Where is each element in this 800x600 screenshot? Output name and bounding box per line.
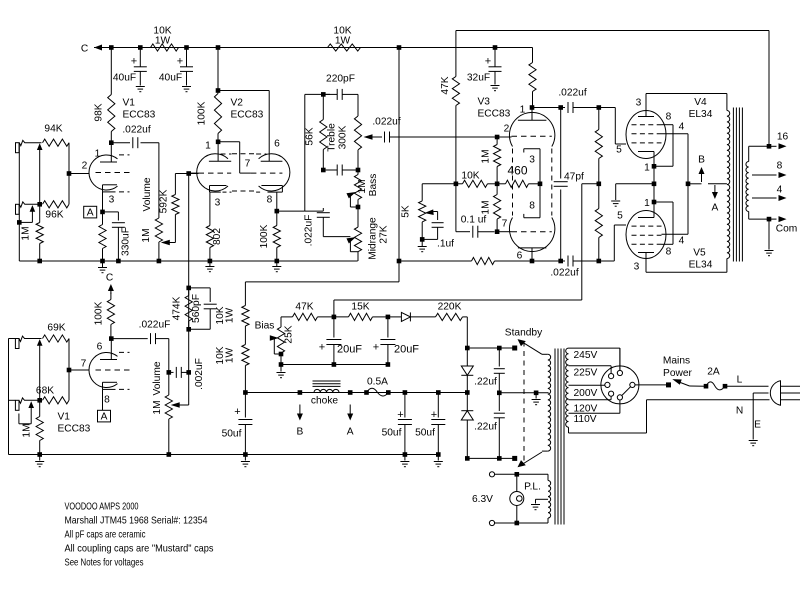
svg-text:ECC83: ECC83 [231, 110, 264, 121]
svg-text:8: 8 [267, 195, 273, 206]
wire NFB to tail [455, 106, 457, 184]
svg-text:50uf: 50uf [222, 429, 242, 440]
svg-text:5: 5 [616, 145, 622, 156]
wire V2b out to stack [277, 210, 305, 212]
output transformer core [733, 108, 742, 262]
svg-text:A: A [87, 208, 94, 219]
junction jack bus [17, 220, 22, 225]
svg-text:592K: 592K [159, 189, 170, 213]
svg-text:1: 1 [520, 105, 526, 116]
svg-text:220pF: 220pF [326, 74, 355, 85]
ground 32uF [491, 86, 500, 91]
resistor V3 upper plate load [529, 63, 536, 92]
node B arrow [688, 155, 705, 184]
selector pin 110 [617, 395, 622, 400]
svg-text:1W: 1W [225, 307, 236, 323]
junction vol2 gnd [167, 452, 172, 457]
capacitor 0.1uf NFB [456, 215, 495, 238]
svg-text:+: + [373, 342, 379, 354]
wire HT center tap [547, 392, 550, 394]
svg-text:.022uf: .022uf [122, 125, 150, 136]
svg-text:4: 4 [777, 185, 783, 196]
wire bass to mid [357, 207, 359, 227]
wire V2 direct couple [218, 142, 251, 173]
svg-text:110V: 110V [574, 414, 597, 425]
tap 120V [569, 396, 612, 414]
junction V2a plate node [216, 140, 221, 145]
svg-text:8: 8 [666, 112, 672, 123]
capacitor 47pf [554, 108, 584, 262]
svg-text:20uF: 20uF [394, 344, 419, 356]
label V4 EL34 [689, 97, 713, 120]
capacitor .22uf #1 [474, 348, 505, 393]
label V3 ECC83 [478, 97, 511, 120]
mains plug [770, 381, 800, 405]
potentiometer Volume 1M top [141, 177, 175, 261]
mains transformer core [555, 349, 564, 525]
label Standby [505, 328, 543, 339]
mains primary winding [566, 348, 569, 427]
svg-text:Mains: Mains [663, 356, 690, 367]
junction Bplus rect [465, 390, 470, 395]
svg-text:Power: Power [663, 368, 692, 379]
switch standby link [523, 342, 525, 465]
wire jack bus to rail [18, 222, 20, 261]
junction rect top [465, 346, 470, 351]
svg-text:Treble: Treble [327, 123, 338, 152]
ground presence [418, 239, 427, 251]
svg-text:6: 6 [517, 251, 523, 262]
tap 225V [569, 366, 612, 379]
tube V2 envelope [197, 154, 290, 191]
tap 200V [569, 385, 605, 399]
svg-text:.1uf: .1uf [437, 239, 454, 250]
svg-text:245V: 245V [574, 350, 598, 361]
svg-text:+: + [397, 409, 403, 421]
junction 002 right [186, 370, 191, 375]
svg-text:2: 2 [82, 161, 88, 172]
junction treble bottom [356, 168, 361, 173]
ground rail left [35, 455, 44, 467]
wire V3 lower plate feed [399, 260, 472, 262]
junction 474K bottom [186, 327, 191, 332]
capacitor 330uF [112, 212, 132, 261]
svg-text:100K: 100K [94, 301, 105, 325]
label V5 EL34 [689, 248, 713, 271]
wire V4 plate [646, 94, 727, 117]
svg-text:50uf: 50uf [415, 428, 435, 439]
resistor 1M PI upper [481, 137, 501, 184]
wire V5 cathode [653, 202, 655, 218]
junction fuse2 right [723, 384, 728, 389]
resistor 1M PI lower [481, 184, 501, 232]
wire V5 plate [646, 253, 727, 273]
junction cathode mid [652, 182, 657, 187]
junction presence gnd [420, 237, 425, 242]
resistor 100K V1b load [94, 300, 115, 339]
capacitor .022uf to V5 [532, 256, 599, 279]
svg-text:.022uf: .022uf [558, 88, 586, 99]
wire V2a plate [217, 142, 219, 161]
switch contact arrow J2 [19, 205, 35, 222]
triode V3a grid [504, 124, 552, 137]
svg-text:V5: V5 [693, 248, 706, 259]
svg-text:0.5A: 0.5A [367, 377, 388, 388]
output transformer secondary [746, 146, 749, 219]
triode V2a plate [205, 141, 231, 162]
triode V2b grid [240, 172, 283, 174]
svg-text:A: A [712, 203, 719, 214]
tap 110V [569, 400, 620, 425]
wire L [725, 375, 769, 387]
resistor 592K [159, 174, 180, 215]
svg-text:4: 4 [679, 122, 685, 133]
triode V2a cathode [210, 186, 232, 209]
junction 1M2 top [37, 398, 42, 403]
wire NFB to grid cap [455, 184, 457, 232]
wire V1b plate [110, 339, 112, 360]
svg-text:All coupling caps are "Mustard: All coupling caps are "Mustard" caps [65, 544, 214, 555]
junction fuse left [364, 390, 369, 395]
junction V5 cathode [652, 200, 657, 205]
junction 20uF1 gnd [332, 362, 337, 367]
svg-text:C: C [81, 44, 88, 55]
resistor 56K slope [305, 94, 327, 170]
wire primary bottom [569, 400, 647, 433]
svg-text:96K: 96K [45, 210, 63, 221]
svg-text:3: 3 [109, 195, 115, 206]
junction 47pf bottom [558, 259, 563, 264]
junction bass cap left [321, 168, 326, 173]
resistor V5 grid leak [595, 184, 602, 261]
input jack J3 tip [15, 339, 19, 349]
fuse 2A [706, 367, 725, 390]
wire cathode gnd link [616, 184, 654, 200]
junction rect bottom [465, 456, 470, 461]
wire cathode to V5 [653, 184, 655, 202]
wire V2a cathode [209, 192, 211, 225]
junction choke A [348, 390, 353, 395]
terminal heater top [489, 472, 494, 477]
svg-text:10K: 10K [461, 171, 479, 182]
svg-text:Volume: Volume [142, 177, 153, 211]
junction bias node [332, 315, 337, 320]
svg-text:.022uf: .022uf [372, 117, 400, 128]
wire V5 grid [599, 211, 626, 262]
junction 50uf2 top [403, 390, 408, 395]
switch mains power [663, 356, 693, 388]
wire V3a grid [495, 136, 512, 138]
svg-text:1M: 1M [21, 226, 32, 240]
ground 802 [205, 261, 214, 272]
terminal heater bottom [489, 520, 494, 525]
junction 98K top [109, 45, 114, 50]
node B feed [297, 405, 304, 438]
selector wiper [622, 387, 631, 396]
junction bass bottom [356, 205, 361, 210]
svg-text:6: 6 [97, 342, 103, 353]
ground V1a cathode [98, 261, 107, 273]
junction 802 gnd [208, 259, 213, 264]
potentiometer Midrange 27K [346, 217, 389, 260]
svg-text:V3: V3 [478, 97, 491, 108]
capacitor 20uF #2 [373, 317, 420, 365]
wire volume top feed [158, 143, 160, 218]
junction V1b plate [109, 336, 114, 341]
svg-text:802: 802 [212, 228, 223, 245]
svg-text:B: B [698, 155, 705, 166]
svg-text:V1: V1 [123, 98, 136, 109]
wire rect top rail [467, 347, 514, 349]
notes text [65, 502, 214, 569]
junction 40uF2 [184, 45, 189, 50]
svg-text:A: A [347, 427, 354, 438]
wire jack bus 2 [9, 339, 16, 455]
wire treble top [357, 94, 359, 116]
capacitor .022uf PI input [372, 117, 494, 143]
wire tail row [422, 183, 462, 185]
tap 4 [752, 185, 787, 202]
resistor 96K [43, 201, 70, 221]
capacitor .002uF [169, 358, 205, 390]
ground E [749, 441, 758, 446]
resistor 100K V2b cathode [259, 211, 280, 261]
input jack J1 tip [16, 143, 20, 153]
capacitor 40uF #2 [159, 48, 193, 86]
svg-text:5: 5 [617, 211, 623, 222]
junction rail left [243, 390, 248, 395]
wire E [753, 393, 768, 440]
junction fuse right [386, 390, 391, 395]
svg-text:1: 1 [95, 149, 101, 160]
svg-text:.022uF: .022uF [304, 215, 315, 247]
junction 1M upper top [495, 135, 500, 140]
wire V1b grid [69, 359, 89, 371]
resistor 10K 1W #1 [151, 26, 179, 52]
cathode bracket V3 [524, 149, 540, 218]
svg-text:VOODOO AMPS 2000: VOODOO AMPS 2000 [65, 502, 139, 513]
resistor 10K 1W drop1 [215, 282, 249, 326]
junction PL top [515, 472, 520, 477]
triode V2b plate [256, 154, 282, 161]
svg-text:All pF caps are ceramic: All pF caps are ceramic [65, 530, 146, 541]
tube V3 envelope bottom [509, 218, 554, 252]
junction Com tap [767, 217, 772, 222]
junction PL bottom [515, 521, 520, 526]
wire heater CT [536, 499, 549, 503]
wire channel2 riser [188, 174, 190, 288]
wire jack3 tip spring [19, 336, 42, 341]
ground CT [532, 393, 541, 405]
resistor 10K tail [461, 171, 487, 188]
svg-text:1: 1 [205, 141, 211, 152]
junction 50uf1 gnd [243, 452, 248, 457]
diode rect D2 [461, 393, 473, 459]
junction mix node [186, 171, 191, 176]
resistor 10K 1W #2 [328, 26, 361, 52]
wire bias feed riser [334, 184, 599, 300]
wire V4 screen [662, 134, 689, 234]
svg-text:0.1 uf: 0.1 uf [461, 215, 487, 226]
ground 40uF2 [182, 87, 191, 92]
svg-text:Volume: Volume [152, 361, 163, 395]
potentiometer Treble 300K [327, 116, 383, 170]
wire jack1 tip spring [19, 140, 41, 145]
wire bias top [281, 317, 293, 327]
wire bright riser [188, 288, 190, 405]
svg-text:See Notes for voltages: See Notes for voltages [65, 558, 144, 569]
junction 474K top [186, 286, 191, 291]
wire V5 screen [662, 233, 689, 235]
svg-text:1M: 1M [141, 228, 152, 242]
wire bias gnd row [281, 364, 388, 366]
junction 1M top [37, 202, 42, 207]
junction bias wiper [279, 352, 284, 357]
triode V2b cathode [256, 186, 282, 206]
resistor V3 lower plate load [472, 257, 495, 264]
triode V3b grid dashes [512, 231, 552, 233]
junction CT gnd [534, 391, 539, 396]
wire CT line [499, 392, 548, 394]
mains HT winding [542, 354, 551, 451]
ground bias [277, 365, 286, 378]
wire preamp ground rail [19, 260, 357, 262]
capacitor .1uf presence [422, 223, 454, 250]
voltage selector body [601, 366, 639, 404]
ground power cathodes [611, 201, 620, 206]
wire heater top [494, 473, 548, 475]
junction tail cathode [538, 182, 543, 187]
wire to V3 lower plate [495, 260, 533, 262]
wire V2b cathode out [276, 192, 278, 211]
svg-text:474K: 474K [172, 296, 183, 320]
capacitor 50uf #1 [222, 393, 253, 455]
svg-text:220K: 220K [438, 302, 462, 313]
wire pin6 feed [218, 91, 280, 162]
junction bias gnd [279, 362, 284, 367]
svg-text:.22uf: .22uf [474, 422, 497, 433]
junction cap1 top [497, 346, 502, 351]
wire 69K to 68K [68, 339, 70, 401]
capacitor .022uf V1a out [111, 125, 159, 149]
capacitor .22uf #2 [474, 393, 505, 459]
node A feed [347, 405, 354, 438]
svg-text:Bias: Bias [255, 321, 275, 332]
wire rect bottom rail [467, 457, 514, 459]
pentode V4 EL34 [626, 98, 685, 174]
wire heater bottom [494, 522, 548, 524]
wire stack top [305, 93, 330, 95]
capacitor .022uF mid [304, 208, 330, 246]
selector pin 200 [605, 382, 610, 387]
svg-text:1W: 1W [225, 347, 236, 363]
wire V3b grid [497, 219, 511, 232]
selector pin 225 [609, 374, 614, 379]
svg-text:E: E [754, 420, 761, 431]
svg-text:47pf: 47pf [564, 172, 584, 183]
svg-text:7: 7 [245, 159, 251, 170]
svg-text:5K: 5K [401, 205, 412, 218]
svg-text:330uF: 330uF [121, 227, 132, 256]
svg-text:7: 7 [81, 359, 87, 370]
junction 50uf3 gnd [436, 452, 441, 457]
wire V1a plate [110, 143, 112, 162]
svg-text:+: + [177, 56, 183, 68]
node A box top [84, 206, 97, 218]
junction vol2 junction [167, 370, 172, 375]
svg-text:EL34: EL34 [689, 109, 713, 120]
resistor 802 cathode [206, 226, 223, 262]
junction bias mid [597, 182, 602, 187]
triode V3a plate [518, 105, 547, 121]
tube V3 envelope top [509, 112, 554, 215]
junction V3 upper plate [530, 105, 535, 110]
junction V2 feed [216, 45, 221, 50]
diode bias [388, 312, 436, 321]
capacitor bass .022 [326, 165, 358, 176]
svg-text:225V: 225V [574, 368, 598, 379]
junction 1M lower bottom [495, 229, 500, 234]
junction 32uF [493, 45, 498, 50]
inductor choke [311, 381, 341, 407]
label V1 ECC83 [123, 98, 156, 121]
svg-text:2A: 2A [707, 367, 720, 378]
svg-text:6: 6 [274, 139, 280, 150]
diode rect D1 [461, 348, 473, 393]
switch contact arrow J1 [37, 143, 43, 204]
svg-text:+: + [234, 406, 240, 418]
input jack J2 tip [16, 204, 20, 214]
tap 16 [749, 132, 789, 150]
wire 40uF1 drop [139, 48, 141, 67]
junction V3b plate [530, 259, 535, 264]
heater winding [548, 474, 551, 523]
svg-text:1M: 1M [481, 149, 492, 163]
label 460 [507, 164, 527, 178]
svg-text:ECC83: ECC83 [123, 110, 156, 121]
triode V1b [89, 342, 130, 406]
triode V1a [89, 149, 130, 206]
resistor 100K V2a load [197, 48, 222, 142]
tap 245V [569, 348, 620, 370]
svg-text:16: 16 [777, 132, 789, 143]
resistor 470R tail [497, 180, 540, 187]
switch contact arrow J4 [19, 401, 34, 424]
svg-text:3: 3 [636, 98, 642, 109]
wire V4 cathode [653, 152, 655, 184]
svg-text:.002uF: .002uF [194, 358, 205, 390]
capacitor 20uF #1 [319, 317, 363, 365]
resistor 15K bias [318, 302, 388, 321]
svg-text:2: 2 [504, 124, 510, 135]
junction 15K right [386, 315, 391, 320]
svg-text:Marshall JTM45 1968 Serial#: 1: Marshall JTM45 1968 Serial#: 12354 [65, 516, 208, 527]
wire 592K to grid [175, 173, 198, 175]
wire mid pot to gnd rail [357, 252, 359, 261]
ground Com [765, 219, 774, 256]
fuse 0.5A [367, 377, 389, 397]
svg-text:C: C [106, 273, 113, 284]
junction 50uf3 top [436, 390, 441, 395]
wire V1a grid [69, 161, 89, 174]
wire mid cap to wiper [323, 236, 350, 238]
ground 50uf2 [400, 455, 409, 467]
svg-text:20uF: 20uF [337, 344, 362, 356]
potentiometer Bias 25K [255, 321, 295, 355]
svg-text:6.3V: 6.3V [472, 494, 493, 505]
junction 40uF1 [138, 45, 143, 50]
wire V1b cathode [102, 390, 104, 411]
